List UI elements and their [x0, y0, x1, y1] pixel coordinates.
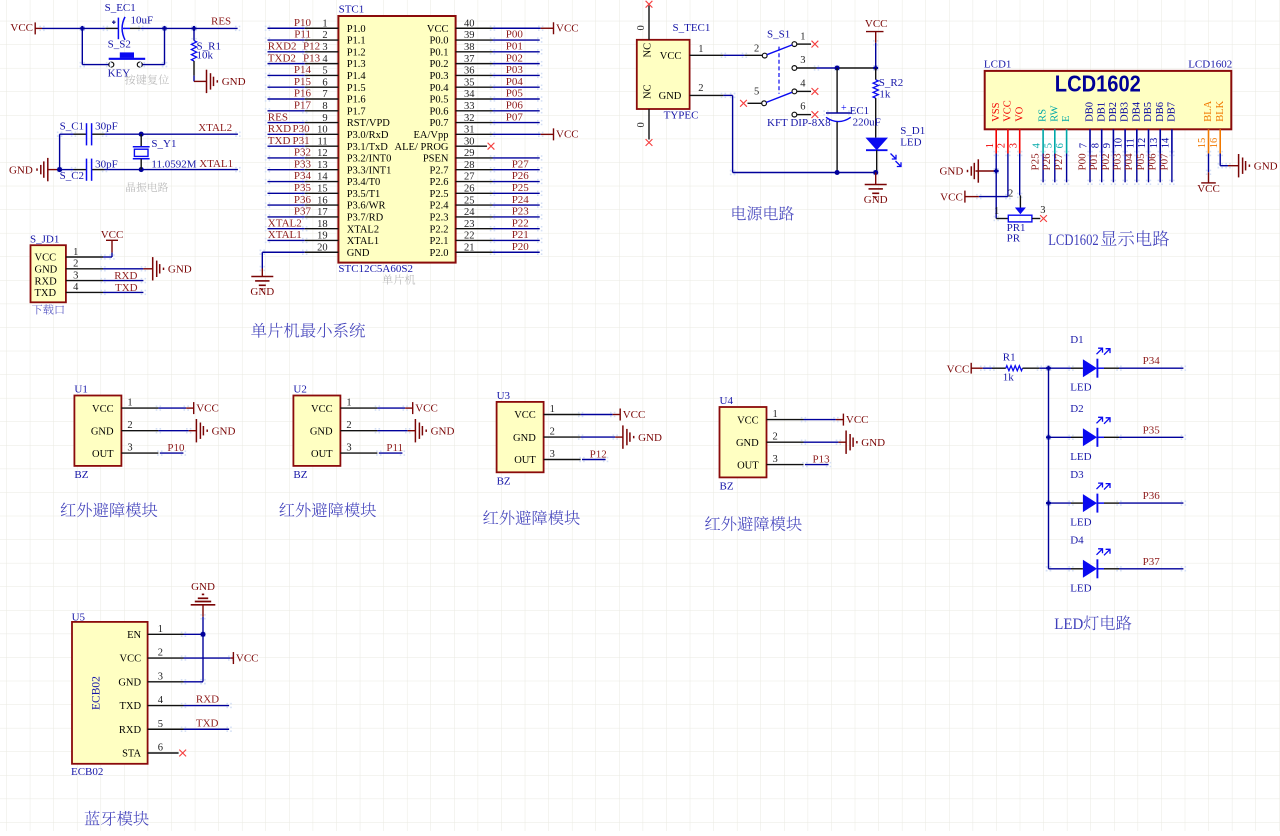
svg-text:ECB02: ECB02 [71, 766, 103, 778]
crystal S_Y1 11.0592M [140, 134, 142, 147]
svg-text:P03: P03 [506, 64, 524, 76]
svg-text:10: 10 [1114, 138, 1125, 149]
svg-text:P21: P21 [512, 229, 529, 241]
svg-text:3: 3 [800, 55, 805, 66]
svg-text:BZ: BZ [497, 475, 511, 487]
svg-text:P10: P10 [167, 442, 185, 454]
svg-text:P24: P24 [512, 194, 530, 206]
svg-text:5: 5 [158, 719, 163, 730]
svg-text:EC1: EC1 [850, 105, 870, 117]
svg-text:P26: P26 [1041, 153, 1053, 171]
U4 pin3 wire P13 [767, 464, 804, 466]
junction dots crystal [139, 132, 144, 137]
U4 pin1 wire to VCC [767, 419, 804, 421]
power port VCC (U3) [619, 409, 621, 421]
svg-text:P03: P03 [1112, 153, 1124, 171]
svg-text:P05: P05 [1135, 153, 1147, 171]
lcd wire P04 [1134, 151, 1136, 153]
svg-text:P16: P16 [294, 88, 312, 100]
svg-text:30pF: 30pF [95, 121, 118, 133]
wire D2 to P35 [1097, 436, 1104, 438]
U4 pin2 wire to GND [767, 441, 804, 443]
wire crystal bottom XTAL1 [57, 167, 59, 169]
svg-text:P11: P11 [386, 442, 403, 454]
ground GND (S_JD1) [152, 257, 154, 280]
wire VSS to PR1 pin1 [994, 168, 996, 170]
lcd pin 7 lead [1089, 129, 1091, 153]
svg-text:P1.6: P1.6 [347, 95, 366, 106]
svg-text:LCD1602: LCD1602 [1055, 70, 1141, 96]
lcd pin 12 lead [1148, 129, 1150, 153]
svg-text:XTAL1: XTAL1 [199, 158, 233, 170]
lcd wire P25 [1040, 151, 1042, 153]
wire VCC to RES [35, 27, 42, 29]
switch blade 2-1 [767, 45, 792, 55]
lcd pin 14 lead [1171, 129, 1173, 153]
ground GND (U3) [622, 425, 624, 448]
lcd wire P07 [1169, 151, 1171, 153]
lcd wire P02 [1111, 151, 1113, 153]
svg-text:VCC: VCC [1003, 100, 1014, 122]
pin1 stub X [797, 43, 811, 45]
svg-text:3: 3 [346, 443, 351, 454]
svg-text:3: 3 [1008, 143, 1019, 148]
lcd wire P00 [1087, 151, 1089, 153]
svg-text:P15: P15 [294, 76, 312, 88]
caption dian yuan dian lu [732, 206, 793, 221]
svg-text:1k: 1k [1003, 371, 1015, 383]
svg-text:VSS: VSS [991, 102, 1002, 121]
svg-text:DB6: DB6 [1155, 102, 1166, 122]
svg-text:LED: LED [1070, 382, 1091, 394]
svg-text:1: 1 [773, 409, 778, 420]
svg-text:P12: P12 [303, 41, 320, 53]
svg-text:XTAL1: XTAL1 [347, 236, 379, 247]
svg-text:6: 6 [800, 102, 805, 113]
svg-text:XTAL2: XTAL2 [347, 224, 379, 235]
U3 pin1 wire to VCC [544, 414, 581, 416]
junction led D3 [1046, 501, 1051, 506]
svg-text:RXD2: RXD2 [268, 41, 297, 53]
pin 4 wire TXD [66, 291, 103, 293]
svg-text:P36: P36 [294, 194, 312, 206]
U2 pin3 wire P11 [340, 452, 377, 454]
svg-text:P02: P02 [506, 52, 523, 64]
U5 pin3 GND wire [148, 681, 184, 683]
svg-text:GND: GND [212, 425, 236, 437]
svg-text:DB0: DB0 [1085, 102, 1096, 122]
lcd pin15 BLA to VCC [1206, 151, 1208, 153]
svg-text:DB2: DB2 [1108, 102, 1119, 122]
svg-text:S_S1: S_S1 [767, 29, 790, 41]
junction led D2 [1046, 435, 1051, 440]
svg-text:2: 2 [1008, 189, 1013, 200]
svg-text:2: 2 [550, 427, 555, 438]
svg-text:2: 2 [127, 420, 132, 431]
svg-text:DB1: DB1 [1096, 102, 1107, 122]
svg-text:3: 3 [158, 671, 163, 682]
svg-text:GND: GND [736, 438, 759, 449]
svg-text:VCC: VCC [236, 653, 259, 665]
svg-text:+: + [841, 103, 847, 114]
svg-text:P02: P02 [1100, 153, 1112, 170]
svg-text:1: 1 [698, 44, 703, 55]
svg-text:4: 4 [158, 695, 164, 706]
svg-text:P1.5: P1.5 [347, 83, 366, 94]
svg-text:P34: P34 [294, 170, 312, 182]
svg-text:DB5: DB5 [1143, 102, 1154, 122]
svg-text:D3: D3 [1070, 469, 1084, 481]
potentiometer PR1 PR [1015, 208, 1026, 215]
junction dots bottom rail [835, 170, 840, 175]
svg-text:11: 11 [1125, 138, 1136, 148]
svg-text:P14: P14 [294, 64, 312, 76]
led D4 [1046, 566, 1048, 568]
svg-text:D1: D1 [1070, 334, 1083, 346]
U5 pin6 STA stub X [148, 752, 179, 754]
svg-text:S_S2: S_S2 [108, 39, 131, 51]
svg-text:P31: P31 [293, 135, 310, 147]
lcd wire P01 [1099, 151, 1101, 153]
power port VCC (U4) [842, 414, 844, 426]
svg-text:TYPEC: TYPEC [664, 110, 699, 122]
svg-text:P1.4: P1.4 [347, 71, 367, 82]
svg-text:S_EC1: S_EC1 [105, 2, 136, 14]
svg-text:S_D1: S_D1 [900, 125, 925, 137]
svg-text:RST/VPD: RST/VPD [347, 118, 391, 129]
svg-text:RXD: RXD [196, 694, 219, 706]
lcd pin 5 lead [1054, 129, 1056, 153]
svg-text:P0.7: P0.7 [430, 118, 449, 129]
svg-text:VCC: VCC [737, 415, 759, 426]
pin6 stub X [797, 114, 811, 116]
ground GND (reset) [206, 70, 208, 93]
svg-text:TXD: TXD [268, 135, 291, 147]
svg-text:VCC: VCC [120, 654, 142, 665]
U2 pin2 wire to GND [340, 430, 377, 432]
svg-text:RXD: RXD [114, 270, 137, 282]
svg-text:P2.5: P2.5 [430, 189, 449, 200]
svg-text:VCC: VCC [427, 24, 449, 35]
svg-text:U3: U3 [497, 390, 511, 402]
lcd pin 1 lead [995, 129, 997, 153]
junction led D1 [1046, 366, 1051, 371]
svg-text:RES: RES [268, 111, 288, 123]
wire S_S2 right branch [162, 26, 164, 28]
svg-text:P37: P37 [1143, 556, 1161, 568]
svg-text:PSEN: PSEN [423, 154, 449, 165]
svg-text:P11: P11 [294, 29, 311, 41]
svg-text:RES: RES [211, 16, 231, 28]
svg-text:STC1: STC1 [339, 4, 365, 16]
svg-text:NC: NC [643, 43, 654, 58]
svg-text:TXD2: TXD2 [268, 52, 296, 64]
svg-text:VCC: VCC [940, 191, 963, 203]
svg-text:GND: GND [431, 425, 455, 437]
svg-text:EA/Vpp: EA/Vpp [414, 130, 449, 141]
svg-text:GND: GND [939, 166, 963, 178]
svg-text:VCC: VCC [556, 23, 579, 35]
svg-text:2: 2 [73, 259, 78, 270]
resistor S_R2 1k [875, 68, 877, 80]
svg-text:220uF: 220uF [853, 117, 881, 129]
svg-text:GND: GND [118, 677, 141, 688]
U5 pin5 RXD wire TXD [148, 728, 184, 730]
svg-text:1: 1 [346, 398, 351, 409]
svg-text:ALE/ PROG: ALE/ PROG [395, 142, 449, 153]
svg-text:P06: P06 [506, 99, 524, 111]
caption jing zhen dian lu [126, 182, 168, 192]
switch dashed link [778, 47, 780, 94]
svg-text:P0.4: P0.4 [430, 83, 450, 94]
svg-text:P32: P32 [294, 147, 311, 159]
svg-text:P33: P33 [294, 158, 312, 170]
svg-text:OUT: OUT [737, 460, 759, 471]
svg-text:U4: U4 [720, 395, 734, 407]
svg-text:P1.2: P1.2 [347, 47, 366, 58]
svg-text:R1: R1 [1003, 351, 1016, 363]
switch blade 5-4 [766, 92, 792, 102]
wire top stub with 0 [648, 6, 650, 40]
svg-text:GND: GND [222, 76, 246, 88]
resistor S_R1 10k [191, 26, 193, 28]
ground GND (lcd right) [1238, 154, 1240, 177]
svg-text:P07: P07 [506, 111, 524, 123]
svg-text:2: 2 [754, 44, 759, 55]
power port VCC (U2) [412, 402, 414, 414]
wire bottom stub with 0 [648, 109, 650, 140]
ground GND (U1) [195, 419, 197, 442]
svg-text:LCD1602: LCD1602 [1188, 59, 1232, 71]
svg-text:GND: GND [347, 248, 370, 259]
svg-text:GND: GND [191, 581, 215, 593]
lcd pin 11 lead [1136, 129, 1138, 153]
svg-text:P27: P27 [1053, 153, 1065, 171]
U1 pin3 wire P10 [121, 452, 158, 454]
svg-text:P2.6: P2.6 [430, 177, 449, 188]
capacitor EC1 220uF [836, 68, 838, 113]
svg-text:9: 9 [1102, 143, 1113, 148]
svg-text:3: 3 [1040, 205, 1045, 216]
svg-text:S_C2: S_C2 [60, 170, 84, 182]
svg-text:1: 1 [73, 247, 78, 258]
svg-text:TXD: TXD [120, 701, 142, 712]
svg-text:1: 1 [127, 398, 132, 409]
svg-text:VCC: VCC [10, 22, 33, 34]
resistor R1 1k [971, 367, 983, 369]
lcd pin 4 lead [1042, 129, 1044, 153]
svg-text:XTAL2: XTAL2 [198, 122, 232, 134]
lcd pin 10 lead [1124, 129, 1126, 153]
svg-text:5: 5 [1043, 143, 1054, 148]
svg-text:LED: LED [900, 136, 921, 148]
svg-text:P36: P36 [1143, 490, 1161, 502]
svg-text:VCC: VCC [311, 404, 333, 415]
wire R1 to GND [193, 61, 195, 76]
lcd pin 2 lead [1007, 129, 1009, 153]
led bus vertical [1046, 366, 1048, 368]
svg-text:GND: GND [638, 432, 662, 444]
svg-text:P2.2: P2.2 [430, 224, 449, 235]
svg-text:OUT: OUT [311, 449, 333, 460]
power port VCC (U5) [232, 652, 234, 664]
svg-text:P13: P13 [303, 52, 321, 64]
svg-text:4: 4 [800, 79, 806, 90]
svg-text:1: 1 [994, 206, 999, 217]
svg-text:VCC: VCC [846, 414, 869, 426]
svg-text:6: 6 [158, 743, 163, 754]
led D3 [1046, 500, 1048, 502]
svg-text:P0.1: P0.1 [430, 47, 449, 58]
wire D4 to P37 [1097, 568, 1104, 570]
pin 2 wire to GND [66, 268, 103, 270]
wire crystal left vertical [57, 132, 59, 134]
power port VCC (S_JD1) [111, 240, 113, 252]
svg-text:BZ: BZ [293, 469, 307, 481]
caption hong wai bi zhang mo kuai (U1) [61, 502, 158, 517]
svg-text:LED: LED [1070, 451, 1091, 463]
svg-text:P26: P26 [512, 170, 530, 182]
svg-text:P2.1: P2.1 [430, 236, 449, 247]
caption xia zai kou [32, 304, 64, 314]
svg-text:VCC: VCC [865, 18, 888, 30]
lcd pin 8 lead [1101, 129, 1103, 153]
svg-text:TXD: TXD [196, 717, 219, 729]
svg-text:RXD: RXD [119, 725, 142, 736]
svg-text:RS: RS [1038, 109, 1049, 122]
svg-text:P3.1/TxD: P3.1/TxD [347, 142, 389, 153]
caption an jian fu wei [125, 74, 169, 84]
svg-text:VCC: VCC [1197, 183, 1220, 195]
wire D1 to P34 [1097, 367, 1104, 369]
U1 pin1 wire to VCC [121, 407, 158, 409]
lcd wire P06 [1158, 151, 1160, 153]
svg-text:GND: GND [250, 286, 274, 298]
svg-text:RXD: RXD [35, 276, 58, 287]
lcd wire P03 [1122, 151, 1124, 153]
wire R1 to bus [1037, 366, 1039, 368]
svg-text:P3.5/T1: P3.5/T1 [347, 189, 381, 200]
svg-text:U1: U1 [74, 384, 87, 396]
svg-text:P00: P00 [1076, 153, 1088, 171]
svg-text:VCC: VCC [660, 51, 682, 62]
svg-text:6: 6 [1055, 143, 1066, 148]
svg-text:P04: P04 [506, 76, 524, 88]
svg-text:2: 2 [158, 648, 163, 659]
svg-text:P05: P05 [506, 88, 524, 100]
svg-text:3: 3 [773, 454, 778, 465]
lcd pin 3 lead [1019, 129, 1021, 153]
svg-text:2: 2 [346, 420, 351, 431]
svg-text:P22: P22 [512, 217, 529, 229]
svg-text:OUT: OUT [92, 449, 114, 460]
svg-text:VCC: VCC [35, 253, 57, 264]
svg-text:P1.3: P1.3 [347, 59, 366, 70]
ground GND (U5 top) [191, 604, 216, 606]
svg-text:GND: GND [91, 426, 114, 437]
lcd pin16 BLK to GND [1218, 151, 1220, 153]
svg-text:12: 12 [1137, 138, 1148, 149]
svg-text:15: 15 [1197, 138, 1208, 149]
svg-text:GND: GND [861, 437, 885, 449]
wire S_S2 left branch [80, 26, 82, 28]
svg-text:GND: GND [9, 164, 33, 176]
svg-text:P37: P37 [294, 206, 312, 218]
svg-text:E: E [1061, 115, 1072, 121]
svg-text:GND: GND [35, 265, 58, 276]
svg-text:GND: GND [1254, 160, 1278, 172]
svg-text:GND: GND [513, 433, 536, 444]
svg-text:LCD1: LCD1 [984, 59, 1012, 71]
svg-text:XTAL2: XTAL2 [268, 217, 302, 229]
svg-text:EN: EN [127, 630, 141, 641]
svg-text:TXD: TXD [35, 288, 57, 299]
svg-text:ECB02: ECB02 [90, 676, 102, 710]
svg-text:P27: P27 [512, 158, 530, 170]
lcd pin 15 lead [1208, 129, 1210, 153]
svg-text:XTAL1: XTAL1 [268, 229, 302, 241]
svg-text:8: 8 [1090, 143, 1101, 148]
svg-text:P2.7: P2.7 [430, 165, 449, 176]
svg-text:P0.5: P0.5 [430, 95, 449, 106]
lcd wire P27 [1064, 151, 1066, 153]
svg-text:P10: P10 [294, 17, 312, 29]
svg-text:S_R2: S_R2 [879, 77, 903, 89]
lcd pin 6 lead [1066, 129, 1068, 153]
svg-text:LED: LED [1070, 517, 1091, 529]
svg-text:BZ: BZ [720, 480, 734, 492]
lcd pin3 VO wire to PR1 wiper [1017, 151, 1019, 153]
U3 pin2 wire to GND [544, 436, 581, 438]
svg-text:P2.4: P2.4 [430, 201, 450, 212]
lcd wire P05 [1146, 151, 1148, 153]
svg-text:30pF: 30pF [95, 158, 118, 170]
caption lan ya mo kuai [85, 811, 149, 826]
svg-text:2: 2 [997, 143, 1008, 148]
led D2 [1046, 435, 1048, 437]
svg-text:S_JD1: S_JD1 [30, 234, 59, 246]
svg-text:P25: P25 [1030, 153, 1042, 171]
svg-text:VCC: VCC [92, 404, 114, 415]
svg-text:1: 1 [800, 32, 805, 43]
junction dots reset rail [80, 26, 85, 31]
svg-text:P3.4/T0: P3.4/T0 [347, 177, 381, 188]
led D1 [1046, 366, 1048, 368]
ground GND (mcu) [261, 269, 263, 277]
svg-text:LED: LED [1070, 582, 1091, 594]
svg-text:D4: D4 [1070, 535, 1084, 547]
svg-text:2: 2 [773, 432, 778, 443]
caption dan pian ji zui xiao xi tong [251, 323, 365, 338]
wire crystal top XTAL2 [57, 132, 59, 134]
ground GND (crystal) [47, 158, 49, 181]
svg-text:P1.1: P1.1 [347, 36, 366, 47]
power port VCC (U1) [193, 402, 195, 414]
svg-text:P01: P01 [506, 41, 523, 53]
svg-text:OUT: OUT [514, 455, 536, 466]
svg-text:BLK: BLK [1215, 100, 1226, 121]
lcd pin2 VCC wire [1005, 151, 1007, 153]
svg-text:P3.2/INT0: P3.2/INT0 [347, 154, 392, 165]
svg-text:5: 5 [754, 87, 759, 98]
lcd pin 9 lead [1112, 129, 1114, 153]
U2 pin1 wire to VCC [340, 407, 377, 409]
svg-text:P0.0: P0.0 [430, 36, 449, 47]
svg-text:DB4: DB4 [1131, 101, 1142, 122]
led S_D1 [866, 138, 889, 151]
svg-text:STC12C5A60S2: STC12C5A60S2 [338, 263, 413, 275]
svg-text:U2: U2 [293, 384, 306, 396]
